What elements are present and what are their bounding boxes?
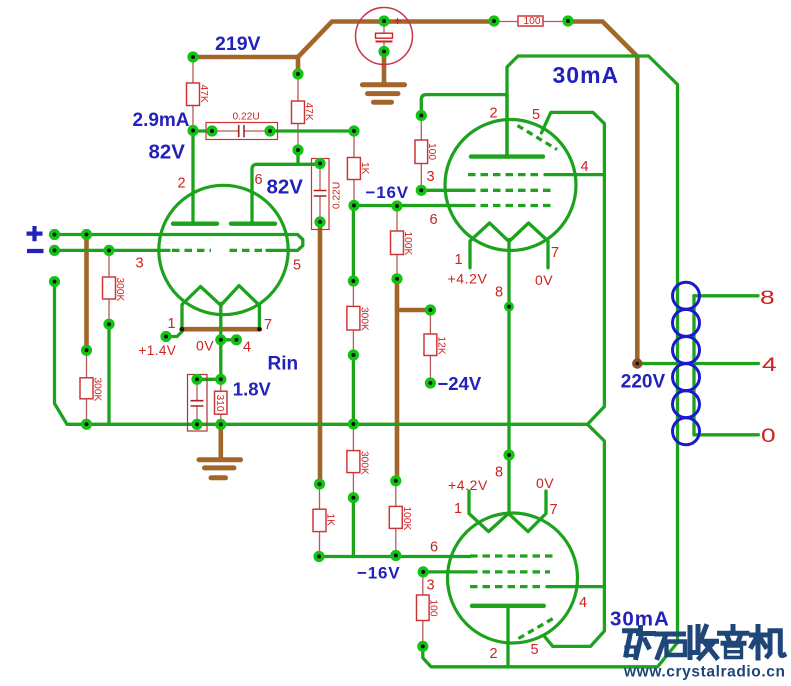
wire input+ column — [84, 235, 89, 351]
resistor 300K mid lower leads — [352, 424, 354, 451]
svg-text:8: 8 — [495, 285, 503, 301]
wire left ground return — [55, 282, 588, 425]
node 100K bottom top — [390, 475, 401, 486]
svg-text:30mA: 30mA — [553, 62, 620, 88]
svg-text:300K: 300K — [359, 451, 370, 475]
U3 heater W mirrored — [469, 491, 546, 532]
node +1.4V terminal — [160, 331, 171, 342]
node 1K bottom top — [314, 479, 325, 490]
resistor 100 bottom tube leads — [422, 572, 424, 595]
svg-text:4: 4 — [579, 595, 587, 611]
input + symbol — [27, 226, 43, 241]
svg-text:2: 2 — [490, 646, 498, 662]
char ji — [752, 627, 785, 659]
svg-text:−24V: −24V — [438, 373, 482, 394]
svg-text:3: 3 — [427, 169, 435, 185]
wire 0V link — [221, 338, 237, 341]
svg-text:4: 4 — [243, 340, 251, 356]
node -16V rail left — [313, 551, 324, 562]
svg-text:Rin: Rin — [268, 353, 299, 374]
resistor R10 300K — [347, 451, 360, 473]
svg-text:8: 8 — [495, 465, 503, 481]
node U2 pin8 — [504, 302, 514, 312]
LAYER: green wires — [55, 56, 759, 667]
svg-text:7: 7 — [550, 502, 558, 518]
resistor R5 100K — [391, 231, 404, 255]
wire pin2 V1 — [191, 131, 194, 223]
node pin4 terminal — [231, 334, 242, 345]
watermark — [623, 627, 786, 681]
svg-text:2: 2 — [490, 106, 498, 122]
node -24V terminal — [425, 377, 436, 388]
svg-text:47K: 47K — [198, 85, 209, 103]
svg-text:0.22U: 0.22U — [233, 112, 260, 123]
svg-text:5: 5 — [293, 258, 301, 274]
node 12K top — [425, 304, 436, 315]
svg-text:7: 7 — [264, 317, 272, 333]
U1 plate bar A — [173, 221, 217, 225]
polarity mark + — [395, 18, 401, 24]
wire cathode cap column — [318, 222, 323, 484]
resistor R1 47K — [187, 83, 200, 106]
capacitor electrolytic top leads — [383, 21, 385, 33]
U2 g dashes row2 pin3 — [468, 189, 555, 192]
node 300K+ top — [81, 345, 92, 356]
node -16V 100K junction — [391, 200, 402, 211]
resistor 1K bottom leads — [319, 484, 321, 509]
node 310 top — [215, 374, 226, 385]
U3 g dashes row3 pin4 — [470, 585, 545, 588]
resistor R3 1K — [347, 158, 360, 180]
resistor 300K input+ leads — [86, 350, 88, 378]
wire mid 300K column mid — [352, 355, 355, 424]
wire -16V bottom rail — [319, 555, 470, 558]
svg-text:8: 8 — [760, 286, 775, 308]
node 300K mid top — [348, 275, 359, 286]
node -16V rail 100K — [390, 550, 401, 561]
U2 g dashes row1 pin4 — [468, 173, 543, 176]
resistor R13 12K — [424, 334, 437, 356]
wire cathode center V1 — [219, 304, 222, 340]
resistor 1K leads — [353, 131, 355, 158]
svg-text:0: 0 — [761, 424, 776, 446]
wire pin8 long column — [507, 240, 510, 514]
pentode U3 envelope — [448, 513, 578, 643]
node 100 rail right — [562, 15, 573, 26]
svg-text:6: 6 — [255, 172, 263, 188]
resistor R12 100K — [389, 506, 402, 528]
node input- junction — [103, 245, 114, 256]
svg-text:1: 1 — [454, 501, 462, 517]
char kuang — [625, 628, 654, 658]
wire B+ rail right of 100 resistor — [568, 22, 637, 364]
node 220V brown — [632, 358, 642, 368]
U2 pin5 dashed arc — [518, 126, 558, 150]
capacitor C4 electrolytic symbol — [376, 33, 393, 38]
U2 row1 solid to right column — [545, 173, 604, 176]
node 100 rail left — [488, 15, 499, 26]
wire tap 8 — [694, 294, 758, 297]
U3 g dashes row2 pin3 — [470, 570, 550, 573]
svg-text:+4.2V: +4.2V — [448, 271, 488, 287]
svg-text:1K: 1K — [325, 514, 336, 527]
svg-text:+1.4V: +1.4V — [139, 343, 177, 358]
svg-text:1K: 1K — [359, 162, 370, 175]
capacitor C3 cathode box — [188, 375, 208, 432]
capacitor C2 plates — [314, 191, 327, 197]
resistor R=47K leads — [192, 57, 194, 83]
wire -16V upper run — [354, 204, 468, 207]
node 100K top bottom — [391, 273, 402, 284]
svg-text:220V: 220V — [621, 371, 666, 392]
U3 g dashes row1 pin6 — [470, 554, 553, 557]
U2 pin2 lead inside — [505, 95, 508, 157]
wire g2 stopper to plate pin2 — [421, 95, 507, 116]
resistor R11 1K — [313, 509, 326, 531]
node C1 left — [206, 125, 217, 136]
char shi — [657, 634, 684, 658]
svg-text:6: 6 — [430, 540, 438, 556]
filter cap red circle — [356, 8, 413, 65]
svg-text:0V: 0V — [535, 272, 553, 288]
pin joint U1 bar left — [180, 327, 185, 332]
resistor R2 47K — [292, 101, 305, 124]
resistor 100K bottom leads — [395, 481, 397, 507]
node 300K lower bottom — [348, 492, 359, 503]
wire 30mA B+ loop: pin2 up, top run, down transformer, bottom rail — [423, 56, 678, 667]
svg-text:5: 5 — [531, 642, 539, 658]
node input- terminal — [49, 245, 60, 256]
node g2 stopper top — [416, 110, 427, 121]
svg-text:0V: 0V — [196, 338, 214, 354]
transformer T1 winding circles — [673, 282, 700, 445]
svg-text:www.crystalradio.cn: www.crystalradio.cn — [623, 664, 786, 681]
wire pin5/pin4 right column with jog — [541, 112, 604, 646]
node 219V — [187, 51, 198, 62]
svg-text:0.22U: 0.22U — [332, 182, 343, 209]
svg-text:+4.2V: +4.2V — [448, 477, 488, 493]
svg-text:100K: 100K — [402, 232, 413, 256]
resistor 100 top-rail leads — [494, 21, 518, 23]
wire B+ top rail left segment — [193, 55, 298, 60]
wire cap link horizontal — [197, 378, 221, 381]
capacitor 0.22U vert leads — [319, 164, 321, 191]
resistor 12K leads — [429, 310, 431, 334]
node U2 pin3 — [416, 185, 427, 196]
U1 grid dashes B — [230, 249, 267, 252]
capacitor 0.22U horiz leads — [212, 130, 239, 132]
svg-text:300K: 300K — [359, 307, 370, 331]
U2 heater W — [470, 223, 548, 268]
pin joint U1 bar right — [257, 327, 262, 332]
node plate1 — [187, 125, 198, 136]
svg-text:4: 4 — [581, 159, 589, 175]
resistor 100K top leads — [396, 206, 398, 231]
wire tube V1 cathode hook +1.4V — [166, 332, 182, 337]
capacitor C2 0.22U box — [312, 159, 330, 230]
wire 100K column — [395, 279, 400, 481]
node 47K2 top — [292, 68, 303, 79]
U3 pin5 dashed arc — [519, 617, 557, 639]
svg-text:310: 310 — [214, 395, 225, 412]
ground bottom — [199, 460, 241, 478]
svg-text:82V: 82V — [149, 141, 186, 164]
resistor R6 300K — [103, 277, 116, 299]
node plate2 — [292, 144, 303, 155]
resistor 300K input- leads — [108, 250, 110, 277]
svg-text:300K: 300K — [114, 278, 125, 302]
wire plate1 node to cap — [193, 129, 212, 132]
pentode U2 envelope — [445, 120, 576, 251]
svg-text:219V: 219V — [215, 33, 261, 55]
wire input+ line with right hook to grid B — [55, 235, 303, 251]
U1 heater/cathode W — [182, 286, 259, 329]
U2 plate bar — [471, 154, 543, 158]
triode U1 envelope — [159, 185, 288, 314]
svg-text:47K: 47K — [303, 103, 314, 121]
node C3 top — [191, 374, 202, 385]
node cap circle top — [378, 15, 389, 26]
wire mid 300K column upper — [352, 206, 355, 282]
wire input- line — [55, 249, 170, 252]
wire tap 0 — [694, 433, 758, 436]
resistor R14 100 horizontal on rail — [518, 16, 543, 26]
wire transformer winding tap column — [692, 296, 695, 435]
node 100 bottom — [417, 641, 428, 652]
resistor R8 310 — [215, 391, 228, 414]
ground top — [363, 85, 405, 102]
resistor 310 leads — [220, 379, 222, 391]
U3 row2 solid from node — [423, 570, 470, 573]
node input+ junction — [81, 229, 92, 240]
svg-text:12K: 12K — [436, 337, 447, 355]
node 1K top — [348, 125, 359, 136]
U1 grid dashes A — [172, 249, 211, 252]
resistor R9 300K — [347, 306, 360, 330]
node C2 top — [314, 158, 325, 169]
svg-text:100: 100 — [524, 16, 541, 27]
resistor R7 300K — [80, 378, 93, 399]
U2 g dashes row3 pin6 — [468, 204, 555, 207]
resistor R15 100 — [417, 595, 430, 621]
U3 plate bar — [472, 604, 544, 608]
capacitor C1 0.22U box — [206, 123, 278, 140]
wire plate2 to pin6 V1 — [252, 164, 320, 222]
U1 plate bar B — [231, 221, 275, 225]
node ground return terminal — [49, 276, 60, 287]
svg-text:6: 6 — [430, 212, 438, 228]
wire 300K input- column — [107, 324, 110, 424]
svg-text:4: 4 — [762, 353, 777, 375]
svg-text:1: 1 — [455, 252, 463, 268]
node 300K- bottom — [103, 319, 114, 330]
wire -24V stub — [397, 308, 430, 313]
svg-text:3: 3 — [427, 578, 435, 594]
U3 row3 solid to right column — [547, 585, 604, 588]
wire cap to 1K node — [270, 129, 354, 132]
node C1 right — [264, 125, 275, 136]
wire tap 4 — [637, 362, 758, 365]
svg-text:−16V: −16V — [357, 563, 400, 582]
svg-text:1.8V: 1.8V — [233, 379, 272, 400]
resistor 47K#2 leads — [297, 74, 299, 101]
capacitor cathode leads — [196, 379, 198, 400]
node rail C3 — [191, 419, 202, 430]
char shou — [690, 627, 717, 659]
wire heater bar tube V1 — [182, 327, 260, 332]
node U3 pin8 — [503, 449, 514, 460]
svg-text:100K: 100K — [401, 507, 412, 531]
svg-text:300K: 300K — [92, 378, 103, 402]
tubes — [159, 95, 605, 666]
node U3 pin3 — [418, 566, 429, 577]
svg-text:2.9mA: 2.9mA — [133, 110, 190, 131]
svg-text:0V: 0V — [536, 475, 554, 491]
wire plate2 node stub — [296, 150, 299, 164]
wire ground lead top — [382, 52, 387, 83]
wire mid 300K column lower — [352, 498, 355, 557]
LAYER: brown wires — [87, 22, 638, 485]
node -16V left — [348, 200, 359, 211]
svg-text:100: 100 — [426, 143, 437, 160]
wire B+ rail diagonal and top run — [298, 22, 494, 58]
capacitor C3 plates — [191, 401, 204, 406]
wire B+ rail stub down to node — [296, 57, 301, 72]
node 300K mid bottom — [348, 349, 359, 360]
capacitor C1 plates — [239, 125, 244, 137]
svg-text:−16V: −16V — [366, 183, 409, 202]
node rail 300K+ — [81, 419, 92, 430]
node C2 bottom — [314, 216, 325, 227]
U2 row2 solid from node — [421, 189, 468, 192]
svg-text:82V: 82V — [267, 176, 304, 199]
U3 pin2 lead — [506, 606, 509, 667]
node 0V cathode — [215, 334, 226, 345]
input - symbol — [27, 249, 44, 253]
svg-text:3: 3 — [136, 256, 144, 272]
svg-text:100: 100 — [428, 600, 439, 617]
node input+ terminal — [49, 229, 60, 240]
char yin — [720, 627, 748, 644]
wire cathode to 310/cap nodes — [219, 340, 222, 380]
resistor R4 100 — [415, 140, 428, 164]
node rail 310/ground — [215, 419, 226, 430]
node rail 300K mid — [348, 418, 359, 429]
svg-text:1: 1 — [168, 316, 176, 332]
resistor 300K mid upper leads — [352, 281, 354, 306]
svg-text:7: 7 — [551, 245, 559, 261]
LAYER: thin red leads — [87, 21, 569, 646]
svg-text:2: 2 — [178, 176, 186, 192]
svg-text:5: 5 — [532, 107, 540, 123]
node cap circle bottom — [378, 46, 389, 57]
resistor 100 leads (g2 stopper) — [420, 116, 422, 141]
wire ground lead center — [219, 424, 224, 457]
